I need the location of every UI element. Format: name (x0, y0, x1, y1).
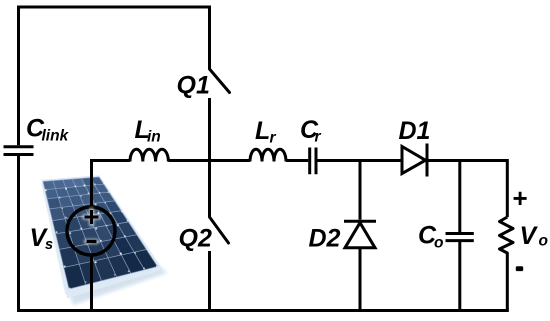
svg-text:link: link (42, 128, 70, 145)
svg-text:s: s (45, 237, 53, 253)
svg-text:L: L (255, 117, 270, 145)
svg-text:r: r (270, 130, 277, 147)
svg-text:Q1: Q1 (177, 72, 210, 100)
svg-text:in: in (147, 129, 161, 146)
svg-text:D1: D1 (399, 117, 431, 145)
svg-text:r: r (315, 129, 322, 146)
svg-text:Q2: Q2 (179, 225, 212, 253)
svg-text:V: V (520, 222, 539, 250)
svg-text:D2: D2 (309, 225, 341, 253)
svg-text:o: o (434, 235, 443, 252)
svg-text:+: + (512, 183, 527, 213)
svg-text:o: o (539, 233, 548, 250)
